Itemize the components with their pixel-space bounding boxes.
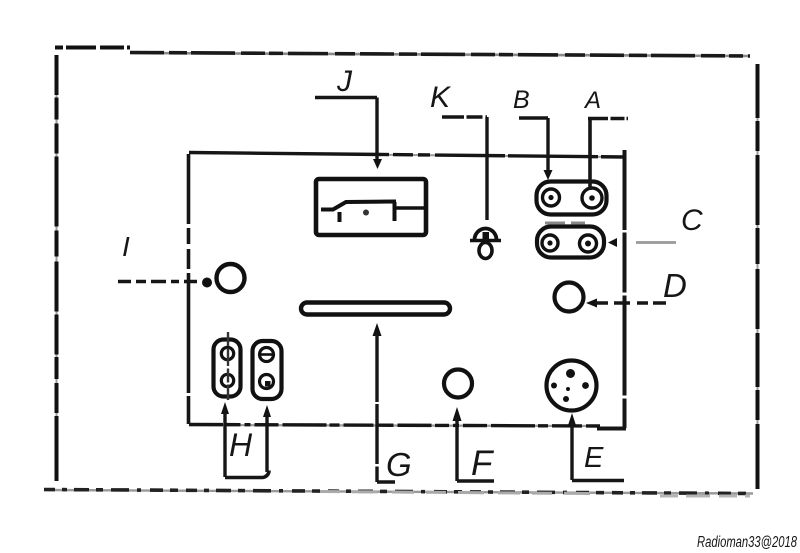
- svg-text:I: I: [122, 231, 130, 262]
- svg-text:H: H: [229, 427, 253, 463]
- svg-text:B: B: [513, 86, 530, 114]
- svg-text:C: C: [681, 204, 703, 237]
- svg-text:J: J: [336, 65, 353, 98]
- svg-text:F: F: [471, 444, 495, 483]
- svg-text:A: A: [583, 87, 601, 114]
- svg-text:E: E: [584, 442, 604, 474]
- svg-text:K: K: [430, 81, 452, 114]
- svg-text:D: D: [663, 267, 687, 304]
- svg-text:G: G: [386, 446, 412, 483]
- svg-text:Radioman33@2018: Radioman33@2018: [697, 534, 797, 551]
